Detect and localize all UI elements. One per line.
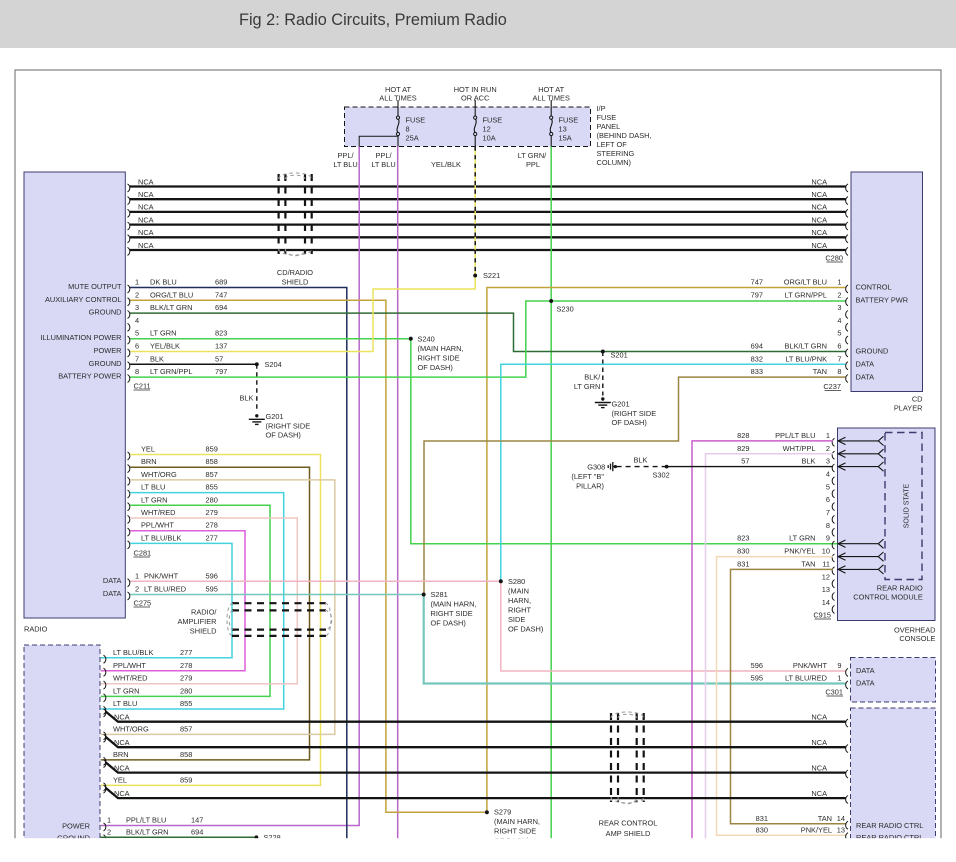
svg-text:SOLID STATE: SOLID STATE xyxy=(904,483,911,528)
svg-text:SHIELD: SHIELD xyxy=(190,627,217,636)
svg-text:WHT/RED: WHT/RED xyxy=(113,674,148,683)
svg-text:YEL: YEL xyxy=(141,445,155,454)
svg-text:2: 2 xyxy=(837,290,841,299)
svg-text:PANEL: PANEL xyxy=(597,122,621,131)
svg-text:MUTE OUTPUT: MUTE OUTPUT xyxy=(68,282,122,291)
svg-text:823: 823 xyxy=(737,534,749,543)
svg-text:RIGHT SIDE: RIGHT SIDE xyxy=(431,609,473,618)
svg-text:5: 5 xyxy=(837,329,841,338)
svg-text:S280: S280 xyxy=(508,577,525,586)
svg-text:BATTERY POWER: BATTERY POWER xyxy=(58,372,121,381)
svg-text:6: 6 xyxy=(135,342,139,351)
svg-text:823: 823 xyxy=(215,329,227,338)
svg-text:OF DASH): OF DASH) xyxy=(508,625,543,634)
svg-text:8: 8 xyxy=(406,125,410,134)
svg-text:747: 747 xyxy=(215,290,227,299)
svg-text:C275: C275 xyxy=(134,599,152,608)
svg-text:PPL/LT BLU: PPL/LT BLU xyxy=(775,431,815,440)
svg-text:NCA: NCA xyxy=(811,738,827,747)
svg-text:S240: S240 xyxy=(418,335,435,344)
svg-text:LT BLU: LT BLU xyxy=(371,160,395,169)
svg-text:(LEFT "B": (LEFT "B" xyxy=(571,472,604,481)
svg-text:NCA: NCA xyxy=(811,228,827,237)
svg-text:POWER: POWER xyxy=(62,822,90,831)
svg-text:1: 1 xyxy=(107,816,111,825)
svg-text:C280: C280 xyxy=(825,254,843,263)
svg-text:G201: G201 xyxy=(612,400,630,409)
svg-text:831: 831 xyxy=(737,559,749,568)
svg-text:6: 6 xyxy=(837,342,841,351)
svg-text:LT GRN: LT GRN xyxy=(150,329,176,338)
svg-text:1: 1 xyxy=(837,278,841,287)
svg-text:NCA: NCA xyxy=(138,241,154,250)
svg-text:NCA: NCA xyxy=(811,241,827,250)
svg-text:279: 279 xyxy=(206,508,218,517)
svg-text:NCA: NCA xyxy=(138,190,154,199)
svg-text:858: 858 xyxy=(206,457,218,466)
svg-text:PNK/WHT: PNK/WHT xyxy=(793,661,828,670)
svg-text:AMPLIFIER: AMPLIFIER xyxy=(177,617,216,626)
svg-text:LT BLU: LT BLU xyxy=(141,483,165,492)
svg-text:8: 8 xyxy=(837,367,841,376)
svg-text:LT GRN: LT GRN xyxy=(789,534,815,543)
svg-text:NCA: NCA xyxy=(138,215,154,224)
svg-text:278: 278 xyxy=(180,661,192,670)
svg-text:BLK/: BLK/ xyxy=(584,373,601,382)
svg-text:3: 3 xyxy=(135,303,139,312)
svg-text:3: 3 xyxy=(837,303,841,312)
svg-text:25A: 25A xyxy=(406,134,419,143)
svg-text:SIDE: SIDE xyxy=(508,615,525,624)
svg-text:BLK/LT GRN: BLK/LT GRN xyxy=(785,342,827,351)
svg-text:DATA: DATA xyxy=(856,679,875,688)
svg-text:57: 57 xyxy=(741,457,749,466)
svg-text:833: 833 xyxy=(751,367,763,376)
svg-text:LT GRN: LT GRN xyxy=(113,686,139,695)
svg-text:DATA: DATA xyxy=(856,372,875,381)
svg-text:NCA: NCA xyxy=(114,738,130,747)
svg-text:FUSE: FUSE xyxy=(559,115,579,124)
svg-text:COLUMN): COLUMN) xyxy=(597,158,632,167)
svg-text:797: 797 xyxy=(215,367,227,376)
svg-text:277: 277 xyxy=(180,648,192,657)
svg-text:OF DASH): OF DASH) xyxy=(418,363,453,372)
svg-text:NCA: NCA xyxy=(811,177,827,186)
svg-text:OF DASH): OF DASH) xyxy=(431,619,466,628)
svg-text:13: 13 xyxy=(837,825,845,834)
svg-text:LT BLU/PNK: LT BLU/PNK xyxy=(785,354,827,363)
svg-text:ILLUMINATION POWER: ILLUMINATION POWER xyxy=(40,333,121,342)
svg-text:LT GRN/PPL: LT GRN/PPL xyxy=(150,367,192,376)
svg-text:CONTROL: CONTROL xyxy=(856,283,892,292)
svg-text:2: 2 xyxy=(107,827,111,836)
svg-text:WHT/RED: WHT/RED xyxy=(141,508,176,517)
svg-text:PPL/LT BLU: PPL/LT BLU xyxy=(126,816,166,825)
svg-text:830: 830 xyxy=(756,825,768,834)
svg-text:857: 857 xyxy=(180,724,192,733)
svg-text:STEERING: STEERING xyxy=(597,149,635,158)
svg-text:LT BLU/RED: LT BLU/RED xyxy=(144,585,186,594)
svg-text:RIGHT: RIGHT xyxy=(508,606,531,615)
svg-text:ORG/LT BLU: ORG/LT BLU xyxy=(784,278,827,287)
svg-text:6: 6 xyxy=(826,495,830,504)
svg-text:7: 7 xyxy=(826,508,830,517)
svg-text:S201: S201 xyxy=(611,351,628,360)
svg-text:PNK/YEL: PNK/YEL xyxy=(801,825,832,834)
svg-text:YEL/BLK: YEL/BLK xyxy=(431,160,461,169)
svg-text:S204: S204 xyxy=(265,360,282,369)
svg-text:14: 14 xyxy=(822,598,830,607)
svg-text:NCA: NCA xyxy=(811,203,827,212)
svg-text:1: 1 xyxy=(826,431,830,440)
svg-text:596: 596 xyxy=(751,661,763,670)
svg-text:ORG/LT BLU: ORG/LT BLU xyxy=(150,290,193,299)
svg-text:POWER: POWER xyxy=(94,346,122,355)
svg-text:GROUND: GROUND xyxy=(89,308,122,317)
svg-text:859: 859 xyxy=(206,445,218,454)
svg-text:PNK/YEL: PNK/YEL xyxy=(784,547,815,556)
svg-text:12: 12 xyxy=(822,572,830,581)
svg-text:DATA: DATA xyxy=(856,666,875,675)
svg-text:PLAYER: PLAYER xyxy=(894,404,923,413)
svg-text:FUSE: FUSE xyxy=(406,115,426,124)
svg-text:DATA: DATA xyxy=(103,589,122,598)
svg-text:S281: S281 xyxy=(431,590,448,599)
svg-text:RIGHT SIDE: RIGHT SIDE xyxy=(494,827,536,836)
svg-text:LT BLU/BLK: LT BLU/BLK xyxy=(141,533,181,542)
svg-text:2: 2 xyxy=(135,585,139,594)
svg-text:11: 11 xyxy=(822,559,830,568)
svg-text:3: 3 xyxy=(826,457,830,466)
svg-text:C281: C281 xyxy=(134,549,152,558)
svg-text:14: 14 xyxy=(837,814,845,823)
svg-text:10: 10 xyxy=(822,547,830,556)
svg-text:4: 4 xyxy=(837,316,841,325)
svg-text:RIGHT SIDE: RIGHT SIDE xyxy=(418,354,460,363)
svg-text:(RIGHT SIDE: (RIGHT SIDE xyxy=(266,421,311,430)
svg-text:CONSOLE: CONSOLE xyxy=(899,634,935,643)
svg-text:I/P: I/P xyxy=(597,104,606,113)
svg-text:7: 7 xyxy=(135,354,139,363)
svg-text:REAR RADIO CTRL: REAR RADIO CTRL xyxy=(856,821,923,830)
svg-text:C915: C915 xyxy=(813,611,831,620)
svg-text:C237: C237 xyxy=(823,382,841,391)
svg-text:694: 694 xyxy=(215,303,227,312)
svg-text:859: 859 xyxy=(180,775,192,784)
svg-text:1: 1 xyxy=(135,278,139,287)
svg-text:S302: S302 xyxy=(653,471,670,480)
svg-text:694: 694 xyxy=(191,827,203,836)
svg-text:280: 280 xyxy=(180,686,192,695)
svg-text:RADIO: RADIO xyxy=(24,625,48,634)
svg-text:BRN: BRN xyxy=(113,750,129,759)
svg-text:(RIGHT SIDE: (RIGHT SIDE xyxy=(612,409,657,418)
svg-text:AUXILIARY CONTROL: AUXILIARY CONTROL xyxy=(45,295,122,304)
svg-text:RADIO/: RADIO/ xyxy=(191,608,217,617)
svg-text:NCA: NCA xyxy=(114,713,130,722)
svg-text:LEFT OF: LEFT OF xyxy=(597,140,628,149)
svg-text:BLK/LT GRN: BLK/LT GRN xyxy=(150,303,192,312)
svg-text:8: 8 xyxy=(135,367,139,376)
svg-text:PPL/: PPL/ xyxy=(375,151,392,160)
svg-text:PPL/: PPL/ xyxy=(337,151,354,160)
svg-text:LT GRN: LT GRN xyxy=(574,382,600,391)
svg-text:TAN: TAN xyxy=(818,814,832,823)
svg-text:(BEHIND DASH,: (BEHIND DASH, xyxy=(597,131,652,140)
svg-text:G308: G308 xyxy=(587,463,605,472)
svg-text:831: 831 xyxy=(756,814,768,823)
svg-text:OF DASH): OF DASH) xyxy=(612,418,647,427)
svg-text:S221: S221 xyxy=(483,271,500,280)
svg-text:NCA: NCA xyxy=(811,713,827,722)
svg-text:LT GRN/: LT GRN/ xyxy=(518,151,547,160)
svg-text:858: 858 xyxy=(180,750,192,759)
svg-text:YEL: YEL xyxy=(113,775,127,784)
svg-text:857: 857 xyxy=(206,470,218,479)
svg-text:FUSE: FUSE xyxy=(483,115,503,124)
svg-text:Fig 2: Radio Circuits, Premium: Fig 2: Radio Circuits, Premium Radio xyxy=(239,11,507,29)
svg-text:(MAIN: (MAIN xyxy=(508,587,529,596)
svg-text:TAN: TAN xyxy=(801,559,815,568)
svg-text:13: 13 xyxy=(822,585,830,594)
svg-text:FUSE: FUSE xyxy=(597,113,617,122)
svg-text:(MAIN HARN,: (MAIN HARN, xyxy=(418,344,464,353)
svg-text:8: 8 xyxy=(826,521,830,530)
svg-text:GROUND: GROUND xyxy=(89,359,122,368)
svg-text:BLK: BLK xyxy=(802,457,816,466)
svg-text:PILLAR): PILLAR) xyxy=(576,482,604,491)
svg-text:BLK: BLK xyxy=(240,394,254,403)
svg-text:LT BLU/BLK: LT BLU/BLK xyxy=(113,648,153,657)
svg-text:277: 277 xyxy=(206,533,218,542)
svg-text:5: 5 xyxy=(826,482,830,491)
svg-text:SHIELD: SHIELD xyxy=(282,278,309,287)
svg-text:(MAIN HARN,: (MAIN HARN, xyxy=(431,600,477,609)
svg-text:OF DASH): OF DASH) xyxy=(266,431,301,440)
svg-text:279: 279 xyxy=(180,674,192,683)
svg-text:832: 832 xyxy=(751,354,763,363)
svg-text:GROUND: GROUND xyxy=(856,347,889,356)
svg-text:15A: 15A xyxy=(559,134,572,143)
svg-text:WHT/ORG: WHT/ORG xyxy=(141,470,177,479)
svg-text:10A: 10A xyxy=(483,134,496,143)
svg-text:BRN: BRN xyxy=(141,457,157,466)
svg-text:YEL/BLK: YEL/BLK xyxy=(150,342,180,351)
svg-text:HARN,: HARN, xyxy=(508,596,531,605)
svg-text:694: 694 xyxy=(751,342,763,351)
svg-text:S279: S279 xyxy=(494,808,511,817)
svg-text:LT BLU: LT BLU xyxy=(333,160,357,169)
svg-text:CD/RADIO: CD/RADIO xyxy=(277,268,313,277)
svg-text:BATTERY PWR: BATTERY PWR xyxy=(856,296,909,305)
svg-text:797: 797 xyxy=(751,290,763,299)
svg-text:NCA: NCA xyxy=(114,789,130,798)
svg-text:NCA: NCA xyxy=(138,177,154,186)
svg-text:PNK/WHT: PNK/WHT xyxy=(144,571,179,580)
svg-text:(MAIN HARN,: (MAIN HARN, xyxy=(494,817,540,826)
svg-text:DATA: DATA xyxy=(856,360,875,369)
svg-text:S230: S230 xyxy=(557,305,574,314)
svg-text:CD: CD xyxy=(912,395,923,404)
svg-text:C211: C211 xyxy=(134,382,151,391)
svg-text:137: 137 xyxy=(215,342,227,351)
svg-text:DATA: DATA xyxy=(103,576,122,585)
svg-text:DK BLU: DK BLU xyxy=(150,278,177,287)
svg-text:747: 747 xyxy=(751,278,763,287)
svg-text:147: 147 xyxy=(191,816,203,825)
svg-text:5: 5 xyxy=(135,329,139,338)
svg-text:C301: C301 xyxy=(825,688,843,697)
svg-text:855: 855 xyxy=(206,483,218,492)
svg-text:BLK/LT GRN: BLK/LT GRN xyxy=(126,827,168,836)
svg-text:2: 2 xyxy=(826,444,830,453)
svg-text:4: 4 xyxy=(826,470,830,479)
svg-text:PPL/WHT: PPL/WHT xyxy=(113,661,146,670)
svg-text:595: 595 xyxy=(751,674,763,683)
svg-text:AMP SHIELD: AMP SHIELD xyxy=(606,829,651,838)
svg-text:57: 57 xyxy=(215,354,223,363)
svg-text:596: 596 xyxy=(206,571,218,580)
svg-text:2: 2 xyxy=(135,290,139,299)
svg-text:NCA: NCA xyxy=(114,763,130,772)
svg-text:855: 855 xyxy=(180,699,192,708)
svg-text:12: 12 xyxy=(483,125,491,134)
svg-text:278: 278 xyxy=(206,521,218,530)
svg-text:9: 9 xyxy=(826,534,830,543)
svg-text:NCA: NCA xyxy=(811,763,827,772)
svg-text:G201: G201 xyxy=(266,412,284,421)
svg-text:830: 830 xyxy=(737,547,749,556)
svg-text:PPL/WHT: PPL/WHT xyxy=(141,521,174,530)
svg-text:WHT/PPL: WHT/PPL xyxy=(783,444,816,453)
svg-text:PPL: PPL xyxy=(526,160,540,169)
svg-text:WHT/ORG: WHT/ORG xyxy=(113,724,149,733)
svg-text:LT BLU/RED: LT BLU/RED xyxy=(785,674,827,683)
svg-text:REAR CONTROL: REAR CONTROL xyxy=(599,819,658,828)
svg-text:LT GRN: LT GRN xyxy=(141,495,167,504)
svg-text:1: 1 xyxy=(135,571,139,580)
svg-text:NCA: NCA xyxy=(811,190,827,199)
svg-text:689: 689 xyxy=(215,278,227,287)
svg-text:BLK: BLK xyxy=(634,456,648,465)
svg-text:BLK: BLK xyxy=(150,354,164,363)
svg-text:NCA: NCA xyxy=(811,789,827,798)
svg-text:LT BLU: LT BLU xyxy=(113,699,137,708)
svg-text:TAN: TAN xyxy=(813,367,827,376)
svg-text:LT GRN/PPL: LT GRN/PPL xyxy=(785,290,827,299)
svg-text:13: 13 xyxy=(559,125,567,134)
svg-text:NCA: NCA xyxy=(138,203,154,212)
svg-text:595: 595 xyxy=(206,585,218,594)
svg-text:9: 9 xyxy=(837,661,841,670)
svg-text:1: 1 xyxy=(837,674,841,683)
svg-text:NCA: NCA xyxy=(138,228,154,237)
svg-text:828: 828 xyxy=(737,431,749,440)
svg-text:NCA: NCA xyxy=(811,215,827,224)
svg-text:829: 829 xyxy=(737,444,749,453)
svg-text:4: 4 xyxy=(135,316,139,325)
svg-text:REAR RADIO: REAR RADIO xyxy=(877,584,923,593)
svg-text:CONTROL MODULE: CONTROL MODULE xyxy=(853,592,923,601)
svg-text:280: 280 xyxy=(206,495,218,504)
svg-text:7: 7 xyxy=(837,354,841,363)
